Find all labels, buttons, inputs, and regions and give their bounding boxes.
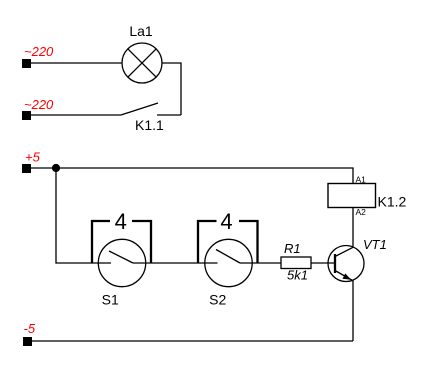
svg-text:K1.1: K1.1 [135,117,164,133]
transistor VT1 [328,246,364,282]
svg-text:~220: ~220 [24,97,54,112]
svg-text:A1: A1 [356,174,367,184]
relay contact K1.1 [121,103,181,115]
terminal ~220 top [22,59,31,68]
svg-text:~220: ~220 [24,44,54,59]
rotary switch S2 [205,239,252,286]
svg-text:S1: S1 [102,292,119,308]
svg-text:La1: La1 [129,23,153,39]
svg-text:4: 4 [115,209,127,234]
rotary switch S1 [98,239,145,286]
svg-text:5k1: 5k1 [287,268,308,283]
bracket S1 [92,221,151,263]
terminal ~220 bottom [22,111,31,120]
svg-text:R1: R1 [284,241,301,256]
svg-text:+5: +5 [25,150,41,165]
wire lamp to K1.1 contact (right side) [162,63,181,115]
lamp La1 [122,43,162,83]
wire junction down to S1 [56,168,111,263]
svg-text:-5: -5 [24,321,36,336]
wire terminal to switch [31,114,121,116]
wire -5 rail [32,340,353,342]
svg-text:A2: A2 [356,207,367,217]
bracket S2 [198,221,258,263]
svg-text:S2: S2 [209,292,226,308]
wire terminal to lamp [31,62,122,64]
wire +5 rail to relay coil [31,168,353,184]
svg-text:K1.2: K1.2 [378,194,407,210]
terminal +5 [22,164,31,173]
wire R1 to base [311,262,334,264]
wire collector to relay coil [352,208,354,248]
junction dot [52,164,60,172]
wire S2 to R1 [240,262,281,264]
wire S1 to S2 [133,262,218,264]
terminal -5 [23,337,32,346]
relay coil K1.2 [328,184,376,208]
svg-text:VT1: VT1 [363,237,387,252]
resistor R1 [281,257,311,269]
wire emitter down to rail [352,281,354,341]
svg-text:4: 4 [220,209,232,234]
